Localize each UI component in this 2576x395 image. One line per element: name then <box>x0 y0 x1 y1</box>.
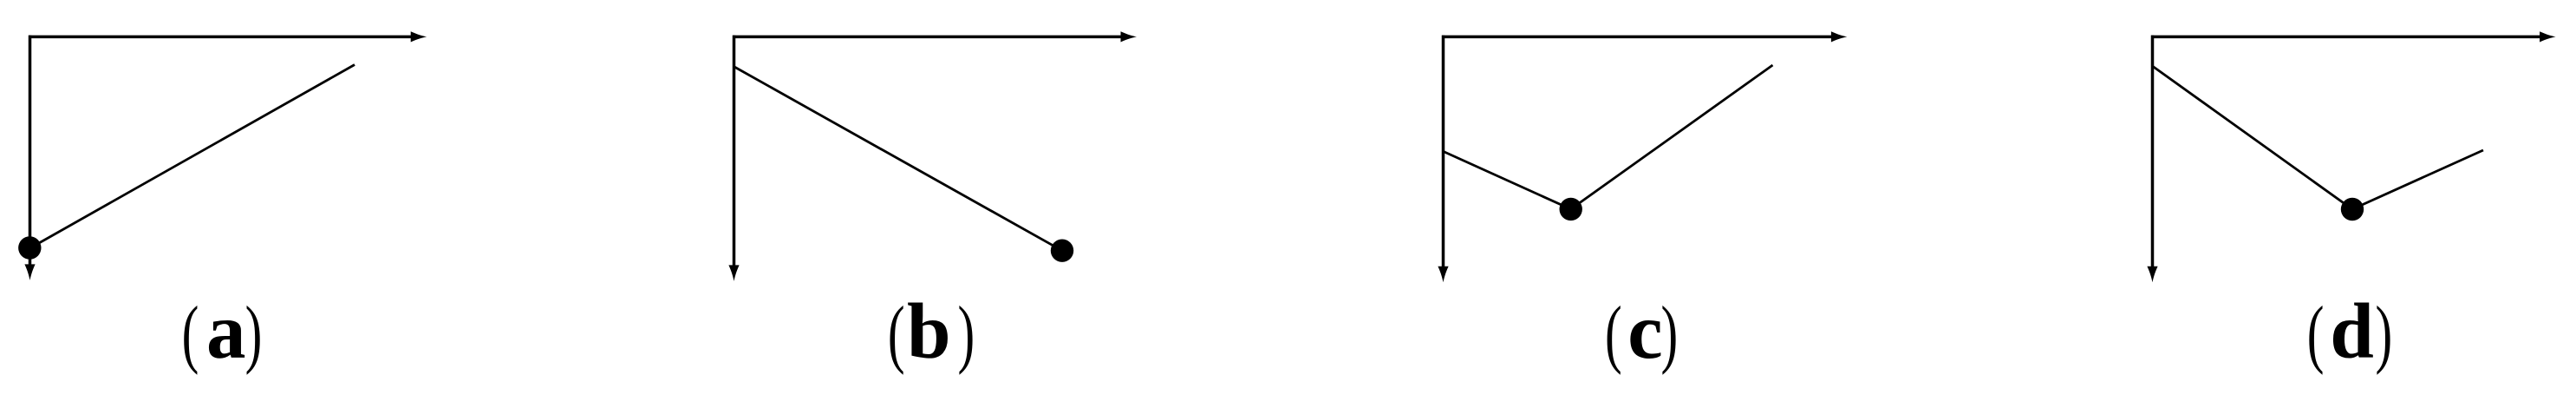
panel (d) trajectory polyline <box>2153 67 2483 210</box>
svg-text:c: c <box>1627 287 1662 375</box>
svg-text:): ) <box>957 291 975 376</box>
svg-text:(: ( <box>888 291 905 376</box>
panel (a) y-axis <box>24 36 35 280</box>
svg-text:): ) <box>2375 291 2392 376</box>
svg-text:d: d <box>2330 287 2374 375</box>
panel (a) trajectory line <box>29 65 355 249</box>
svg-text:): ) <box>245 291 263 376</box>
panel (a) x-axis <box>29 31 427 42</box>
panel (d) point marker <box>2341 198 2364 221</box>
panel (a) point marker <box>18 236 41 259</box>
panel (b) x-axis <box>733 31 1137 42</box>
panel (c) y-axis <box>1438 36 1448 283</box>
panel (c) point marker <box>1560 198 1582 221</box>
svg-text:(: ( <box>2307 291 2325 376</box>
panel (c) trajectory polyline <box>1444 65 1773 209</box>
svg-text:(: ( <box>182 291 199 376</box>
panel (b) y-axis <box>728 36 739 281</box>
svg-text:): ) <box>1660 291 1678 376</box>
svg-text:b: b <box>907 287 951 375</box>
svg-text:a: a <box>206 287 246 375</box>
panel (d) y-axis <box>2147 36 2157 283</box>
svg-text:(: ( <box>1605 291 1622 376</box>
panel (b) trajectory line <box>734 67 1062 251</box>
panel (d) x-axis <box>2151 31 2556 42</box>
panel (b) point marker <box>1051 240 1073 262</box>
panel (c) x-axis <box>1442 31 1847 42</box>
